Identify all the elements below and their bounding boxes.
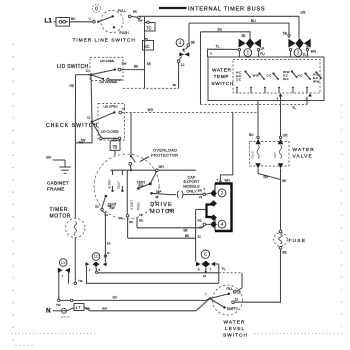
svg-text:1: 1 [246,50,249,56]
svg-text:5A: 5A [107,241,111,245]
wire N to water level [53,310,61,312]
wire timer motor down [74,238,76,284]
node 4 circled [176,39,184,47]
svg-text:W-W: W-W [253,74,260,78]
wire YL dashed [200,32,202,105]
svg-text:W-C: W-C [283,77,289,81]
svg-text:7W: 7W [56,303,61,307]
svg-text:SWITCH: SWITCH [61,316,71,319]
wires below water valve [258,168,280,179]
wire dashed BK [123,87,179,89]
svg-text:3A: 3A [108,204,112,208]
svg-text:T: T [204,188,206,192]
water temp switch dashed box [233,60,320,94]
svg-text:1BA: 1BA [156,189,162,193]
bottom row contacts [236,87,238,89]
node 3 circled [294,49,302,57]
svg-text:73: 73 [139,213,143,217]
svg-text:ONLY: ONLY [186,188,197,193]
lid closed contact [91,75,103,79]
wire bottom bus [98,272,219,274]
svg-text:T: T [62,275,64,279]
ground symbol [64,160,66,167]
svg-text:FUSE: FUSE [289,238,307,244]
plug terminal at L1 [54,21,57,23]
svg-text:LID SWITCH: LID SWITCH [57,64,89,70]
blade to FILL [210,294,229,299]
svg-text:12: 12 [61,260,67,265]
svg-text:PUSH: PUSH [120,31,130,35]
svg-text:BK: BK [133,10,137,14]
svg-text:12: 12 [181,63,185,67]
capacitor C (export) [177,191,178,199]
svg-text:VALVE: VALVE [293,154,313,160]
svg-text:WATER: WATER [212,68,232,74]
svg-text:L5: L5 [122,106,126,110]
svg-text:COLD: COLD [251,151,255,159]
wire BK motor to bracket [136,217,138,228]
lid to check vertical [91,76,92,121]
node 1 circled [244,49,252,57]
wire GY [58,299,60,301]
svg-text:RD: RD [198,219,202,223]
svg-text:BU: BU [249,133,254,137]
svg-text:Y: Y [217,178,219,182]
svg-text:WATER: WATER [224,319,246,325]
blade to lid open contact [91,70,115,75]
node 0 circled [92,4,100,12]
start contact [150,192,153,195]
svg-text:U: U [89,17,91,21]
svg-text:LEVEL: LEVEL [225,326,245,332]
svg-text:MOTOR: MOTOR [50,213,72,219]
wire check common to left rail [75,123,92,143]
wire LW drop to connector 3 [298,16,300,38]
bracket top wire WH [219,181,221,183]
connector 4 triangles [182,49,184,51]
svg-text:FRAME: FRAME [47,187,65,192]
wire GN stub [53,159,65,161]
box 5C [143,41,154,51]
svg-text:6: 6 [204,252,207,258]
wire notch down to connector 6 [195,209,197,261]
connector bracket thick outline [215,184,232,232]
svg-text:2T: 2T [156,195,160,199]
svg-text:C-C: C-C [236,78,241,82]
wire 32 motor to connector 6 [127,217,129,238]
svg-text:12: 12 [87,116,91,120]
svg-text:PULL: PULL [118,9,126,13]
wire down from connector 4 [178,63,180,89]
svg-text:3B: 3B [191,40,196,44]
box 4T [74,304,84,311]
node 6 circled [201,250,209,258]
bottom box [87,266,219,283]
svg-text:4: 4 [221,222,224,228]
svg-text:7C: 7C [146,25,151,30]
svg-text:LID CLOSED: LID CLOSED [101,130,120,134]
connector 12 triangles [58,268,63,273]
svg-text:WH: WH [159,165,165,169]
svg-text:WH: WH [225,179,231,183]
lid switch dashed box [90,57,123,80]
timer line switch dashed circle [101,10,123,32]
closed contact [92,122,101,138]
lid switch common [90,73,93,76]
svg-text:TIMER LINE SWITCH: TIMER LINE SWITCH [73,37,136,43]
svg-text:HOT: HOT [273,152,277,158]
bracket diamonds [210,190,217,197]
water temp switch outer box [208,57,324,101]
temp switch terminals [279,93,283,96]
wire fuse to water level switch [234,249,280,302]
wire drop to connector 4 [188,23,190,44]
svg-text:4: 4 [179,41,182,47]
wire BK lid switch to bus drop [121,69,145,71]
svg-text:LID OPEN: LID OPEN [104,104,118,108]
internal timer buss legend [159,7,187,9]
node 12 circled [59,259,67,267]
wires from connector 12 [58,272,60,301]
svg-text:3W: 3W [198,189,203,193]
svg-text:DRIVE: DRIVE [150,202,173,208]
svg-text:N: N [46,308,51,315]
svg-text:OR: OR [283,134,288,138]
svg-text:2: 2 [221,191,224,197]
svg-text:CABINET: CABINET [47,181,69,186]
svg-text:PROTECTOR: PROTECTOR [151,152,178,157]
pins of connector 3 [289,48,291,50]
svg-text:7B: 7B [112,144,117,149]
svg-text:LW: LW [301,11,307,15]
box 7C [145,23,156,32]
svg-text:BU: BU [218,28,223,32]
svg-text:SLOW: SLOW [107,180,111,189]
svg-text:INTERNAL TIMER BUSS: INTERNAL TIMER BUSS [188,7,265,13]
check switch common [91,121,94,124]
svg-text:TM: TM [78,279,83,283]
svg-text:CHECK SWITCH: CHECK SWITCH [46,123,98,129]
switch blade [98,16,112,21]
svg-text:YL: YL [222,267,226,271]
svg-text:TL: TL [303,53,307,57]
wire to water valve right [280,97,282,137]
node 10 circled [92,253,100,261]
wire left rail RD [74,75,76,219]
wire BU bus3 [201,32,251,38]
svg-text:GN: GN [46,156,51,160]
wire L1 to timer line switch, BK [70,21,93,23]
water valve top connectors [257,136,259,138]
svg-text:FILL: FILL [227,287,234,291]
temp switch contacts [244,70,246,72]
svg-text:WH: WH [102,306,107,310]
water valve bottom connectors [255,163,260,168]
connector 10 triangles [86,262,90,266]
svg-text:WH: WH [311,50,317,54]
svg-text:YL: YL [292,106,296,110]
svg-text:32: 32 [119,216,123,220]
svg-text:5B: 5B [242,34,246,38]
svg-text:L1: L1 [45,18,53,25]
svg-text:RD: RD [70,84,75,88]
check switch dashed box [98,104,125,141]
svg-text:PU: PU [260,52,265,56]
wire YL to water level [219,272,242,274]
node 2 circled [218,189,226,197]
svg-text:FAST: FAST [117,181,121,189]
overload protector contact [130,155,132,157]
timer motor dashed circle [66,218,85,237]
diamond 6 tap [205,267,207,272]
blade to open contact [92,112,114,121]
connector 1: triangles and diamond [239,39,246,48]
svg-text:EMPTY: EMPTY [227,307,239,311]
wire overload drop [130,113,132,157]
connector 3: triangles and diamond [288,39,295,48]
svg-text:SWITCH: SWITCH [223,332,248,338]
svg-text:5T: 5T [306,46,310,50]
svg-text:21: 21 [199,195,203,199]
svg-text:4 T: 4 T [76,306,81,310]
wire WH inside motor [111,169,156,171]
cap terminal [203,193,206,196]
svg-text:TM: TM [79,141,84,145]
svg-text:SWITCH: SWITCH [212,81,234,87]
svg-text:5C: 5C [144,44,149,49]
wire motor to capacitor [152,193,170,194]
connector 6 triangles [196,262,201,267]
node 4 circled [218,220,226,228]
contact to bus [128,15,131,18]
rotor line [126,170,128,214]
svg-text:WATER: WATER [293,147,315,153]
diamond 10 tap [95,267,98,271]
box 7B [114,139,116,141]
svg-text:32: 32 [198,235,202,239]
svg-text:WH: WH [148,108,154,112]
svg-text:3: 3 [297,50,300,56]
svg-text:5B: 5B [283,32,287,36]
svg-text:15: 15 [235,298,239,302]
svg-text:SW: SW [122,62,127,66]
svg-text:TL: TL [216,45,220,49]
RD terminal [203,223,206,226]
svg-text:WDG: WDG [137,202,141,210]
wire to water valve left [257,101,259,137]
wire TL to connector 1 [208,49,239,57]
svg-text:BU: BU [251,19,256,23]
motor bottom terminal [126,214,129,217]
svg-text:LID OPEN: LID OPEN [100,59,114,63]
svg-text:TEMP: TEMP [214,74,230,80]
notch terminal wire [196,208,207,210]
svg-text:W-W: W-W [313,80,320,84]
water valve dashed box [250,142,290,167]
water valve coils [257,145,259,159]
svg-text:BN: BN [264,175,269,179]
svg-text:START: START [130,200,134,210]
svg-text:5D: 5D [95,204,99,208]
WH feed from dashed [220,113,232,184]
svg-text:BK: BK [129,220,133,224]
svg-text:7W: 7W [86,306,91,310]
wire main bus from switch to LW drop [140,15,299,17]
svg-text:0: 0 [95,6,98,12]
fuse [279,230,282,233]
svg-text:OR: OR [168,209,173,213]
wire WH dashed from check switch [122,112,258,114]
wire RD left drop [76,74,92,76]
wire BU bus2 [189,23,289,38]
wire vertical from bus through 7C 5C [144,17,146,89]
svg-text:H-C: H-C [298,74,303,78]
pins of connector 1 [238,48,240,50]
svg-text:C-C: C-C [267,74,272,78]
svg-text:SW: SW [138,19,143,23]
svg-text:12: 12 [86,69,90,73]
connector 6 right edge [218,264,220,283]
drive motor dashed circle [94,154,159,219]
common terminal [209,297,212,300]
svg-text:10: 10 [93,254,99,259]
wire motor contact down to connector 10 [102,211,105,262]
blade to EMPTY [210,299,225,308]
water level switch dashed circle [213,285,243,315]
svg-text:TIMER: TIMER [50,207,69,213]
svg-text:16: 16 [203,274,207,278]
svg-text:LID CLOSED: LID CLOSED [100,80,119,84]
slow fast windings [112,170,114,175]
